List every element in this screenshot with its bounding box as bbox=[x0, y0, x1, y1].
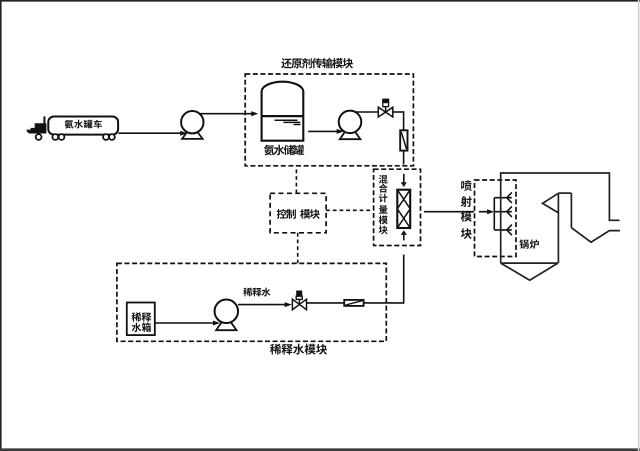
pipe tank to pump P2 bbox=[308, 130, 337, 132]
static mixer bbox=[397, 190, 410, 228]
arrowhead into pump P1 bbox=[180, 131, 187, 136]
boiler furnace rear wall bbox=[557, 193, 559, 263]
module box 还原剂传输模块 bbox=[245, 74, 413, 166]
module box 控制模块 bbox=[270, 193, 326, 233]
ammonia storage tank vessel bbox=[262, 82, 304, 141]
module label 混合计量模块 (vertical) bbox=[379, 175, 388, 234]
pipe truck to pump P1 bbox=[119, 132, 181, 134]
truck label 氨水罐车 bbox=[65, 120, 102, 129]
tank label 氨水储罐 bbox=[264, 145, 304, 155]
dilution water tank 稀释水箱 bbox=[127, 303, 155, 336]
flow element FE1 bbox=[400, 130, 407, 150]
pipe valve V2 to flow element FE2 bbox=[307, 302, 345, 304]
arrowhead into pump P2 bbox=[337, 129, 344, 134]
page border right bbox=[638, 0, 640, 451]
pump P3 body bbox=[215, 300, 239, 324]
label 稀释水 bbox=[243, 288, 270, 297]
arrow into mixer top bbox=[403, 174, 405, 183]
boiler outline bbox=[501, 173, 620, 263]
truck trailer tank bbox=[48, 117, 118, 135]
boiler rear pass hopper and outlet bbox=[571, 228, 620, 243]
page border top bbox=[0, 0, 640, 2]
pump P1 base bbox=[182, 130, 203, 139]
module label 控制 模块 bbox=[277, 209, 320, 219]
tank liquid level line bbox=[262, 115, 304, 117]
pipe corner down to flow element FE1 bbox=[403, 111, 405, 130]
valve V1 body bbox=[378, 107, 393, 117]
arrowhead into pump P3 bbox=[213, 321, 220, 326]
pipe pump P1 to ammonia tank bbox=[200, 113, 251, 115]
module box 喷射模块 bbox=[475, 180, 517, 257]
pipe pump P3 to valve V2 bbox=[238, 304, 285, 306]
page border bottom bbox=[0, 448, 640, 451]
boiler ash hopper bbox=[501, 263, 558, 280]
pump P3 base bbox=[216, 321, 236, 330]
pipe valve V1 to corner bbox=[393, 111, 404, 113]
arrowhead into valve V2 bbox=[285, 302, 292, 307]
boiler furnace bottom bbox=[501, 262, 558, 264]
dashed signal control to transfer module bbox=[295, 166, 297, 194]
pipe tank to pump P3 bbox=[154, 322, 213, 324]
module box 稀释水模块 bbox=[117, 263, 386, 341]
valve V2 body bbox=[292, 299, 306, 310]
boiler label 锅炉 bbox=[519, 239, 539, 249]
injection header pipe bbox=[493, 198, 495, 230]
pump P2 body bbox=[339, 111, 362, 133]
pipe pump P2 to valve V1 bbox=[355, 111, 379, 113]
dashed signal control to dilution module bbox=[297, 233, 299, 263]
boiler division wall bbox=[570, 193, 572, 228]
pipe FE1 down to mixing module bbox=[403, 151, 405, 165]
valve V2 stem bbox=[298, 299, 300, 305]
flow element FE2 bbox=[344, 300, 363, 306]
nozzle branch bottom bbox=[494, 225, 512, 236]
tanker truck cab bbox=[27, 123, 47, 133]
valve V1 actuator bbox=[383, 99, 389, 106]
boiler nose bbox=[543, 193, 559, 212]
truck wheels bbox=[36, 134, 115, 140]
nozzle branch top bbox=[494, 192, 512, 203]
boiler pass roof bbox=[558, 192, 571, 194]
valve V1 stem bbox=[385, 106, 387, 112]
liquid ripple marks bbox=[275, 120, 301, 124]
module title 还原剂传输模块 bbox=[281, 58, 353, 69]
module label 喷射模块 (vertical) bbox=[461, 180, 472, 239]
arrowhead into injection header bbox=[487, 209, 494, 214]
pipe mixing module to injection module bbox=[424, 211, 474, 213]
dashed signal control to mixing module bbox=[326, 209, 374, 211]
pump P2 base bbox=[340, 130, 361, 139]
module box 混合计量模块 bbox=[374, 169, 421, 245]
module label 稀释水模块 bbox=[270, 344, 327, 355]
pump P1 body bbox=[181, 111, 203, 133]
truck exhaust stack bbox=[43, 116, 45, 123]
arrowhead into ammonia tank bbox=[251, 111, 258, 116]
valve V2 actuator bbox=[296, 296, 302, 299]
arrow into mixer bottom bbox=[403, 235, 405, 241]
riser pipe to mixer bottom bbox=[403, 255, 405, 304]
nozzle branch middle bbox=[494, 206, 512, 217]
pipe FE2 to riser corner bbox=[364, 302, 404, 304]
page border left bbox=[0, 0, 2, 451]
